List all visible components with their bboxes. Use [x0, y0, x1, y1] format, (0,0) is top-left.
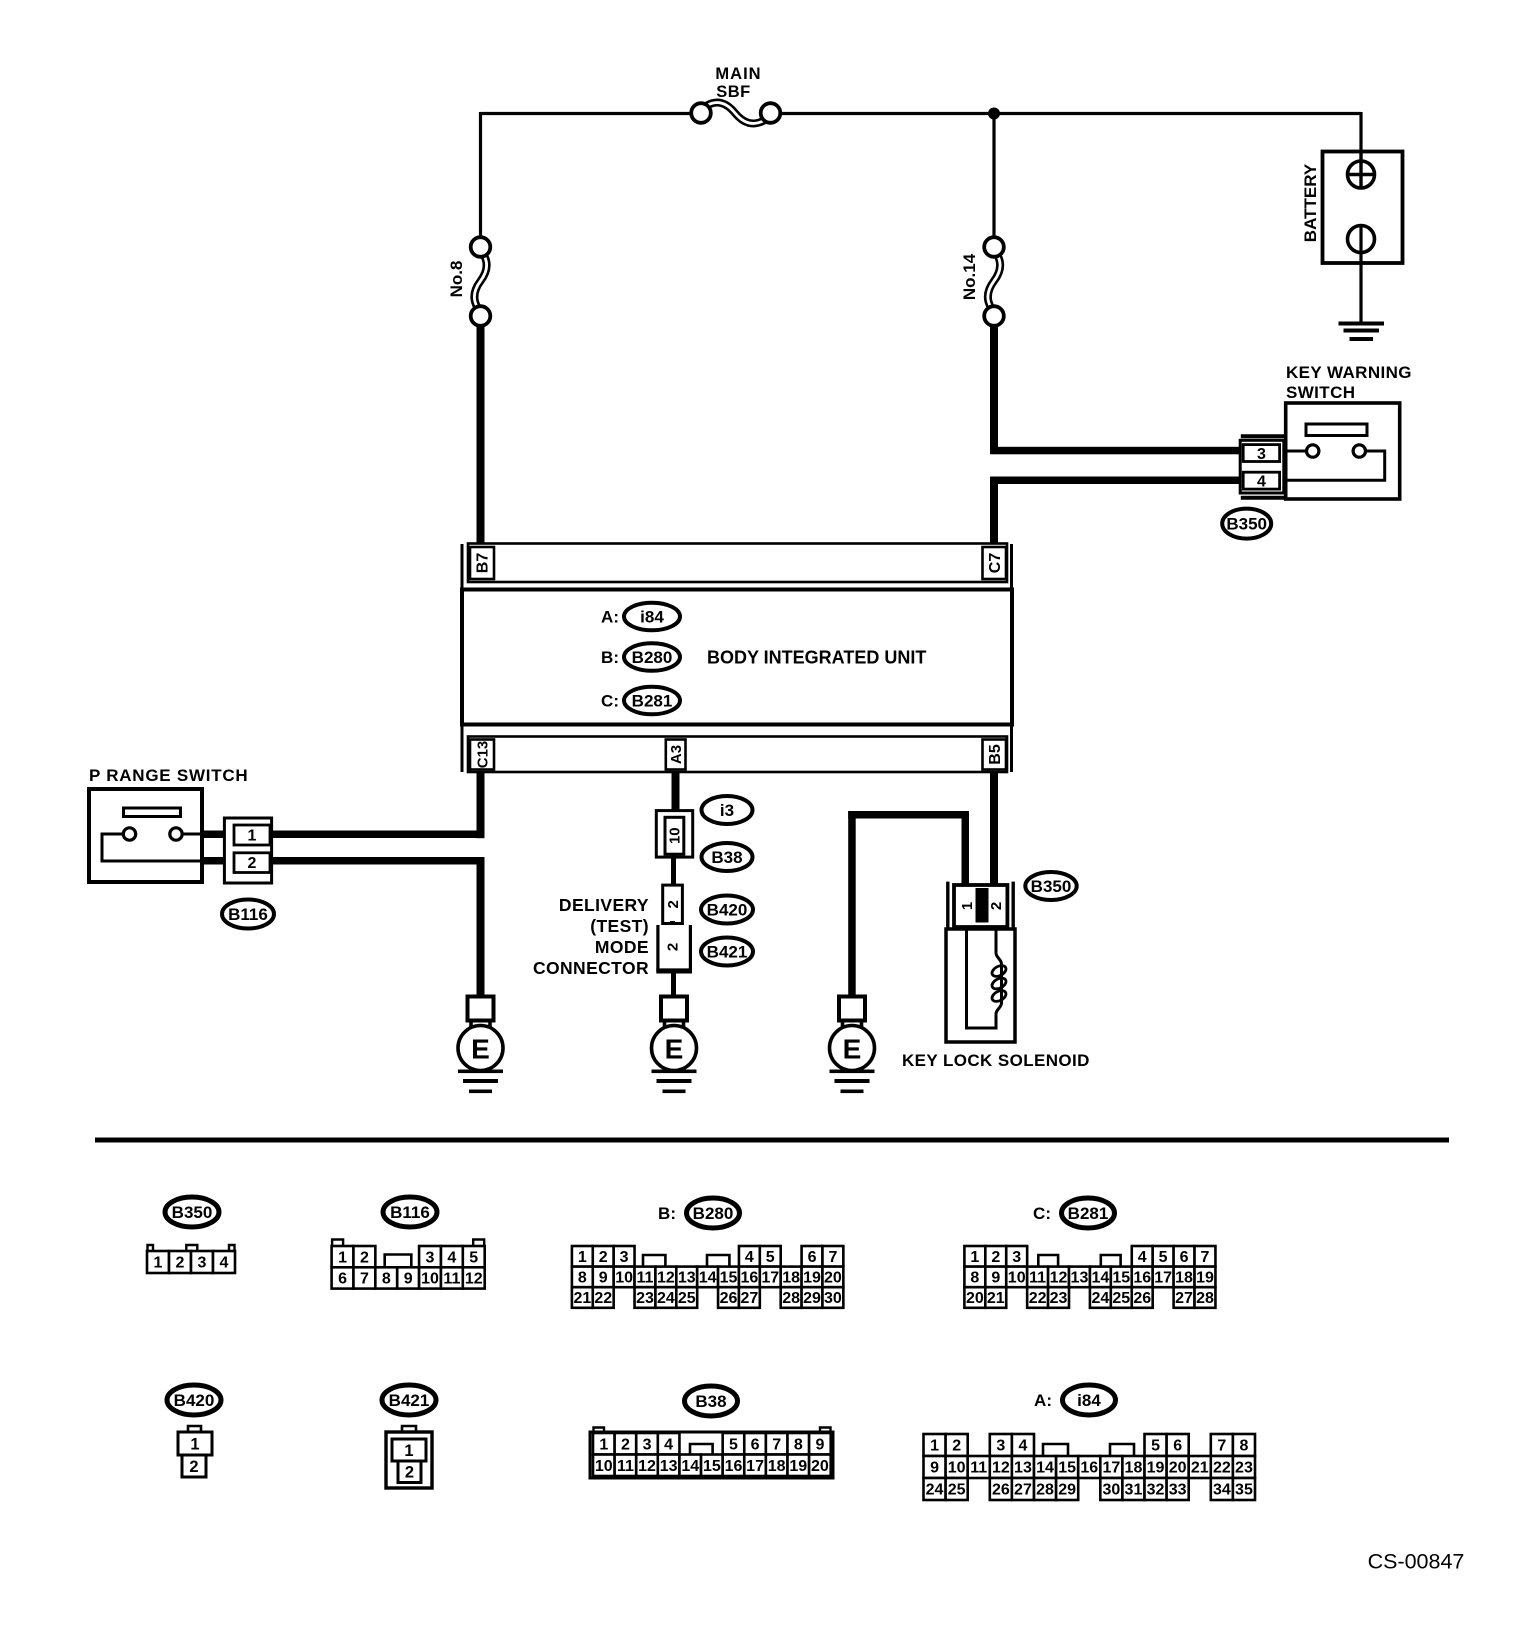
svg-text:A:: A: — [1034, 1391, 1052, 1410]
ground E (key lock solenoid branch) — [830, 997, 875, 1094]
svg-text:B:: B: — [601, 648, 619, 667]
ground E (A3 branch) — [652, 997, 697, 1094]
svg-text:4: 4 — [1138, 1249, 1147, 1266]
wire B421 to ground — [671, 972, 676, 998]
connector label B116 (pinout) — [383, 1197, 437, 1227]
svg-text:MAIN: MAIN — [715, 65, 761, 83]
svg-text:18: 18 — [782, 1270, 800, 1287]
fuse No.8 — [471, 237, 491, 326]
svg-text:B7: B7 — [475, 553, 492, 574]
svg-text:27: 27 — [740, 1290, 758, 1307]
svg-text:17: 17 — [1154, 1270, 1172, 1287]
wire A3 to delivery mode connector pin 10 — [672, 771, 680, 812]
svg-text:12: 12 — [1050, 1270, 1068, 1287]
connector label B350 (key warning switch) — [1222, 509, 1271, 539]
connector label i3 — [702, 796, 753, 824]
connector B38 pinout 1-20 — [590, 1428, 833, 1479]
wire battery positive rail (top horizontal) — [481, 112, 1362, 115]
label B: (pinout) — [658, 1204, 676, 1223]
svg-text:C:: C: — [1033, 1204, 1051, 1223]
wire rail to fuse No.14 — [992, 112, 995, 238]
svg-text:13: 13 — [1071, 1270, 1089, 1287]
svg-text:22: 22 — [594, 1290, 612, 1307]
svg-text:26: 26 — [992, 1482, 1010, 1499]
svg-text:20: 20 — [824, 1270, 842, 1287]
svg-text:1: 1 — [578, 1249, 587, 1266]
pin B5 body integrated unit — [983, 740, 1007, 770]
svg-text:11: 11 — [637, 1270, 654, 1287]
label C: (pinout) — [1033, 1204, 1051, 1223]
svg-text:i84: i84 — [1077, 1391, 1101, 1410]
connector label B420 (pinout) — [167, 1385, 221, 1415]
svg-text:BODY INTEGRATED UNIT: BODY INTEGRATED UNIT — [707, 647, 926, 667]
svg-text:4: 4 — [664, 1436, 673, 1453]
wire B420 pin 2 to B421 pin 2 — [670, 921, 675, 931]
svg-text:B116: B116 — [228, 905, 268, 924]
label A: (pinout) — [1034, 1391, 1052, 1410]
svg-text:22: 22 — [1029, 1290, 1047, 1307]
svg-text:B281: B281 — [1068, 1204, 1109, 1223]
svg-text:No.8: No.8 — [447, 261, 466, 298]
label B: connector B280 — [601, 648, 619, 667]
connector B350 flange at key warning switch — [1240, 436, 1286, 497]
pin 3 key warning switch — [1243, 445, 1279, 463]
svg-text:B38: B38 — [695, 1392, 726, 1411]
svg-text:35: 35 — [1235, 1482, 1253, 1499]
svg-text:12: 12 — [657, 1270, 675, 1287]
svg-text:KEY WARNING: KEY WARNING — [1286, 363, 1412, 382]
pin 10 delivery connector (i3/B38) — [656, 811, 692, 858]
svg-text:3: 3 — [1257, 446, 1266, 463]
connector label i84 (pinout) — [1063, 1385, 1116, 1415]
svg-text:30: 30 — [1102, 1482, 1120, 1499]
label BATTERY — [1301, 163, 1320, 242]
wire P range switch pin 1 — [202, 831, 485, 839]
pin 1 P range switch — [234, 825, 270, 845]
svg-text:24: 24 — [657, 1290, 675, 1307]
svg-text:28: 28 — [782, 1290, 800, 1307]
connector B280 pinout 1-30 — [572, 1246, 843, 1308]
svg-text:1: 1 — [338, 1249, 347, 1266]
svg-text:P RANGE SWITCH: P RANGE SWITCH — [89, 766, 248, 785]
svg-text:1: 1 — [248, 828, 257, 845]
label C: connector B281 — [601, 691, 619, 710]
svg-text:B350: B350 — [1031, 877, 1072, 896]
wire B5 to key lock solenoid pin 2 — [990, 771, 998, 887]
svg-text:2: 2 — [991, 1249, 1000, 1266]
svg-text:SBF: SBF — [716, 83, 751, 101]
svg-text:18: 18 — [1175, 1270, 1193, 1287]
svg-text:27: 27 — [1175, 1290, 1193, 1307]
pin C7 body integrated unit — [983, 547, 1007, 579]
label KEY WARNING SWITCH — [1286, 363, 1412, 402]
svg-text:21: 21 — [1191, 1460, 1209, 1477]
svg-text:16: 16 — [1133, 1270, 1151, 1287]
connector B421 pinout 1-2 — [386, 1426, 432, 1488]
svg-text:8: 8 — [970, 1270, 979, 1287]
svg-text:18: 18 — [768, 1458, 786, 1475]
svg-text:1: 1 — [154, 1255, 163, 1272]
svg-text:12: 12 — [465, 1271, 483, 1288]
connector label B38 — [702, 843, 753, 871]
wire fuse No.8 to B7 — [477, 325, 485, 545]
svg-text:12: 12 — [992, 1460, 1010, 1477]
svg-text:25: 25 — [1112, 1290, 1130, 1307]
svg-text:7: 7 — [828, 1249, 837, 1266]
svg-text:15: 15 — [1112, 1270, 1130, 1287]
svg-text:CS-00847: CS-00847 — [1368, 1550, 1465, 1574]
svg-text:1: 1 — [404, 1442, 413, 1460]
connector i84 pinout 1-35 — [924, 1434, 1256, 1500]
switch U=key warning switch — [1286, 403, 1400, 499]
body integrated unit bottom connector strip — [462, 725, 1012, 772]
svg-text:B350: B350 — [1226, 515, 1267, 534]
svg-text:B421: B421 — [707, 942, 748, 961]
body integrated unit U=BODY INTEGRATED UNIT — [462, 590, 1012, 725]
connector label B420 (inline) — [701, 896, 753, 924]
label CS-00847 — [1368, 1550, 1465, 1574]
svg-text:4: 4 — [220, 1255, 229, 1272]
svg-text:10: 10 — [595, 1458, 613, 1475]
pin 2 connector B421 — [656, 925, 692, 974]
svg-text:20: 20 — [966, 1290, 984, 1307]
connector B281 pinout 1-28 — [964, 1246, 1215, 1308]
svg-text:9: 9 — [930, 1460, 939, 1477]
svg-text:2: 2 — [665, 900, 682, 908]
svg-text:SWITCH: SWITCH — [1286, 383, 1355, 402]
pin A3 body integrated unit — [666, 740, 686, 770]
svg-text:32: 32 — [1147, 1482, 1165, 1499]
svg-text:2: 2 — [360, 1249, 369, 1266]
svg-text:20: 20 — [811, 1458, 829, 1475]
fuse No.14 — [984, 237, 1004, 326]
svg-text:1: 1 — [930, 1438, 939, 1455]
svg-text:13: 13 — [678, 1270, 696, 1287]
svg-text:B420: B420 — [707, 900, 748, 919]
label KEY LOCK SOLENOID — [902, 1051, 1090, 1070]
svg-text:14: 14 — [1036, 1460, 1054, 1477]
svg-text:19: 19 — [803, 1270, 821, 1287]
wire rail to battery — [1359, 112, 1362, 160]
svg-text:2: 2 — [405, 1463, 414, 1481]
svg-text:A:: A: — [601, 607, 619, 626]
svg-text:10: 10 — [1008, 1270, 1026, 1287]
svg-text:B38: B38 — [711, 848, 742, 867]
svg-text:9: 9 — [991, 1270, 1000, 1287]
label MAIN SBF — [715, 65, 761, 101]
connector label i84 — [624, 603, 680, 631]
pin 2 key lock solenoid — [988, 902, 1005, 910]
svg-text:8: 8 — [794, 1436, 803, 1453]
svg-text:E: E — [665, 1033, 684, 1064]
svg-text:7: 7 — [1217, 1438, 1226, 1455]
label fuse No.8 — [447, 261, 466, 298]
svg-text:2: 2 — [599, 1249, 608, 1266]
connector B116 housing at P range switch — [224, 818, 271, 883]
switch S=P range switch — [89, 789, 202, 882]
connector B350 flange at key lock solenoid — [948, 882, 1013, 928]
svg-text:11: 11 — [617, 1458, 634, 1475]
connector B420 pinout 1-2 — [178, 1426, 212, 1477]
svg-text:No.14: No.14 — [960, 253, 979, 300]
svg-text:33: 33 — [1169, 1482, 1187, 1499]
wire fuse No.14 to key warning switch pin 3 — [990, 325, 1243, 454]
pin 2 P range switch — [234, 853, 270, 873]
svg-text:8: 8 — [578, 1270, 587, 1287]
svg-text:12: 12 — [638, 1458, 656, 1475]
svg-text:5: 5 — [1159, 1249, 1168, 1266]
svg-text:10: 10 — [615, 1270, 633, 1287]
svg-text:5: 5 — [1151, 1438, 1160, 1455]
connector label B421 (inline) — [701, 938, 753, 966]
svg-text:24: 24 — [1091, 1290, 1109, 1307]
svg-text:BATTERY: BATTERY — [1301, 163, 1320, 242]
connector label B281 — [624, 687, 680, 715]
svg-text:C13: C13 — [474, 741, 491, 769]
label P RANGE SWITCH — [89, 766, 248, 785]
svg-text:E: E — [843, 1033, 862, 1064]
svg-text:3: 3 — [198, 1255, 207, 1272]
svg-text:17: 17 — [1102, 1460, 1120, 1477]
svg-text:19: 19 — [1147, 1460, 1165, 1477]
svg-text:11: 11 — [1029, 1270, 1046, 1287]
svg-text:14: 14 — [1091, 1270, 1109, 1287]
svg-text:B:: B: — [658, 1204, 676, 1223]
connector label B38 (pinout) — [685, 1386, 738, 1416]
svg-text:13: 13 — [660, 1458, 678, 1475]
svg-text:21: 21 — [573, 1290, 591, 1307]
svg-text:i3: i3 — [720, 801, 734, 820]
svg-text:16: 16 — [1080, 1460, 1098, 1477]
svg-text:8: 8 — [1239, 1438, 1248, 1455]
svg-text:7: 7 — [1201, 1249, 1210, 1266]
svg-text:2: 2 — [621, 1436, 630, 1453]
svg-text:10: 10 — [421, 1271, 439, 1288]
connector label B116 (P range switch) — [222, 900, 274, 929]
label fuse No.14 — [960, 253, 979, 300]
svg-text:2: 2 — [189, 1458, 198, 1476]
svg-text:24: 24 — [926, 1482, 944, 1499]
label DELIVERY (TEST) MODE CONNECTOR — [533, 895, 649, 978]
svg-text:23: 23 — [1235, 1460, 1253, 1477]
divider line — [95, 1138, 1449, 1143]
svg-text:9: 9 — [815, 1436, 824, 1453]
svg-text:1: 1 — [959, 902, 976, 910]
svg-text:22: 22 — [1213, 1460, 1231, 1477]
svg-text:17: 17 — [746, 1458, 764, 1475]
pin 1 key lock solenoid — [959, 902, 976, 910]
svg-text:25: 25 — [678, 1290, 696, 1307]
pin B7 body integrated unit — [470, 547, 494, 579]
svg-text:7: 7 — [772, 1436, 781, 1453]
svg-text:34: 34 — [1213, 1482, 1231, 1499]
svg-text:14: 14 — [681, 1458, 699, 1475]
svg-text:26: 26 — [1133, 1290, 1151, 1307]
svg-text:C7: C7 — [987, 553, 1004, 574]
svg-text:5: 5 — [766, 1249, 775, 1266]
svg-text:4: 4 — [1018, 1438, 1027, 1455]
label BODY INTEGRATED UNIT — [707, 647, 926, 667]
svg-text:3: 3 — [620, 1249, 629, 1266]
svg-text:9: 9 — [599, 1270, 608, 1287]
svg-text:15: 15 — [1058, 1460, 1076, 1477]
pin 2 connector B420 — [663, 885, 683, 923]
body integrated unit top connector strip — [462, 544, 1012, 590]
svg-text:23: 23 — [636, 1290, 654, 1307]
wire P range switch pin 2 to ground — [202, 857, 485, 997]
svg-text:DELIVERY: DELIVERY — [559, 895, 649, 915]
svg-text:11: 11 — [443, 1271, 460, 1288]
svg-text:8: 8 — [382, 1271, 391, 1288]
connector B350 pinout 1-4 — [147, 1245, 235, 1273]
svg-text:B280: B280 — [632, 648, 673, 667]
connector label B280 — [624, 643, 680, 671]
svg-text:7: 7 — [360, 1271, 369, 1288]
svg-text:1: 1 — [599, 1436, 608, 1453]
fuse MAIN SBF — [691, 103, 780, 124]
svg-text:MODE: MODE — [595, 937, 649, 957]
svg-text:16: 16 — [740, 1270, 758, 1287]
svg-text:B280: B280 — [693, 1204, 734, 1223]
svg-text:31: 31 — [1125, 1482, 1143, 1499]
svg-text:28: 28 — [1196, 1290, 1214, 1307]
label A: connector i84 — [601, 607, 619, 626]
wire C13 to P range switch pin 1 — [477, 771, 485, 838]
svg-text:6: 6 — [808, 1249, 817, 1266]
svg-text:19: 19 — [789, 1458, 807, 1475]
svg-text:B421: B421 — [389, 1391, 430, 1410]
wire rail to fuse No.8 — [479, 112, 482, 238]
connector label B350 (pinout) — [165, 1197, 219, 1227]
svg-text:CONNECTOR: CONNECTOR — [533, 958, 649, 978]
svg-text:28: 28 — [1036, 1482, 1054, 1499]
svg-text:B116: B116 — [390, 1203, 430, 1222]
battery BATTERY — [1323, 152, 1403, 323]
connector B116 pinout 1-12 — [332, 1240, 485, 1289]
ground battery — [1339, 322, 1385, 342]
svg-text:6: 6 — [751, 1436, 760, 1453]
junction battery rail / fuse No.14 branch — [988, 108, 1000, 120]
svg-text:E: E — [471, 1033, 490, 1064]
svg-text:3: 3 — [1012, 1249, 1021, 1266]
svg-text:B281: B281 — [632, 691, 673, 710]
svg-text:3: 3 — [426, 1249, 435, 1266]
wire key lock solenoid pin 1 branch — [848, 811, 969, 998]
svg-text:9: 9 — [404, 1271, 413, 1288]
svg-text:4: 4 — [447, 1249, 456, 1266]
svg-text:(TEST): (TEST) — [590, 916, 649, 936]
svg-text:2: 2 — [248, 855, 257, 872]
svg-text:29: 29 — [803, 1290, 821, 1307]
svg-text:3: 3 — [996, 1438, 1005, 1455]
wire key warning switch pin 4 to C7 — [990, 477, 1243, 546]
svg-text:14: 14 — [699, 1270, 717, 1287]
svg-text:2: 2 — [952, 1438, 961, 1455]
pin 4 key warning switch — [1243, 472, 1279, 490]
svg-text:13: 13 — [1014, 1460, 1032, 1477]
connector label B350 (key lock solenoid) — [1025, 872, 1076, 900]
svg-text:C:: C: — [601, 691, 619, 710]
svg-text:4: 4 — [745, 1249, 754, 1266]
svg-text:2: 2 — [664, 943, 681, 951]
svg-text:KEY LOCK SOLENOID: KEY LOCK SOLENOID — [902, 1051, 1090, 1070]
svg-text:20: 20 — [1169, 1460, 1187, 1477]
svg-text:15: 15 — [720, 1270, 738, 1287]
svg-text:4: 4 — [1257, 474, 1266, 491]
connector label B280 (pinout) — [687, 1198, 740, 1228]
svg-text:27: 27 — [1014, 1482, 1032, 1499]
connector label B281 (pinout) — [1062, 1198, 1115, 1228]
svg-text:19: 19 — [1196, 1270, 1214, 1287]
svg-text:3: 3 — [643, 1436, 652, 1453]
wire pin 10 to B420 pin 2 — [671, 855, 676, 887]
svg-text:2: 2 — [988, 902, 1005, 910]
svg-text:10: 10 — [948, 1460, 966, 1477]
svg-text:i84: i84 — [640, 607, 664, 626]
svg-text:10: 10 — [667, 827, 684, 844]
svg-text:17: 17 — [761, 1270, 779, 1287]
svg-text:29: 29 — [1058, 1482, 1076, 1499]
svg-text:11: 11 — [970, 1460, 987, 1477]
svg-text:5: 5 — [469, 1249, 478, 1266]
svg-text:1: 1 — [190, 1435, 199, 1453]
svg-text:A3: A3 — [668, 745, 685, 764]
svg-text:B5: B5 — [987, 744, 1004, 765]
svg-text:1: 1 — [970, 1249, 979, 1266]
svg-text:B420: B420 — [174, 1391, 215, 1410]
svg-text:6: 6 — [338, 1271, 347, 1288]
svg-text:6: 6 — [1180, 1249, 1189, 1266]
ground E (C13 branch) — [458, 997, 503, 1094]
svg-text:21: 21 — [987, 1290, 1005, 1307]
solenoid L=key lock solenoid — [946, 929, 1015, 1042]
svg-text:25: 25 — [948, 1482, 966, 1499]
svg-text:B350: B350 — [172, 1203, 213, 1222]
svg-text:2: 2 — [176, 1255, 185, 1272]
svg-text:6: 6 — [1173, 1438, 1182, 1455]
svg-text:26: 26 — [720, 1290, 738, 1307]
svg-text:16: 16 — [725, 1458, 743, 1475]
svg-text:23: 23 — [1050, 1290, 1068, 1307]
svg-text:5: 5 — [729, 1436, 738, 1453]
svg-text:18: 18 — [1125, 1460, 1143, 1477]
svg-text:30: 30 — [824, 1290, 842, 1307]
svg-text:15: 15 — [703, 1458, 721, 1475]
connector label B421 (pinout) — [382, 1385, 436, 1415]
pin C13 body integrated unit — [470, 740, 494, 770]
